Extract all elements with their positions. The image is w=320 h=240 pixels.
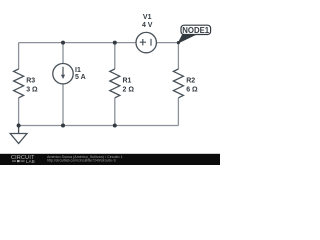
wire R1 bottom	[114, 98, 116, 126]
footer logo LAB	[12, 160, 25, 162]
svg-text:R1: R1	[123, 77, 132, 84]
ground	[18, 126, 20, 134]
svg-text:3 Ω: 3 Ω	[26, 86, 38, 93]
svg-text:R3: R3	[26, 77, 35, 84]
wire I1 top	[62, 43, 64, 64]
wire R2 top vertical	[177, 43, 179, 69]
voltage source V1	[136, 32, 156, 52]
wire left vertical lower	[18, 98, 20, 126]
resistor R1	[110, 69, 120, 98]
junction dot NODE1 corner	[177, 41, 180, 44]
footer bar	[0, 154, 220, 165]
wire V1 right to NODE1 corner	[157, 42, 179, 44]
svg-text:http://circuitlab.com/circuit/: http://circuitlab.com/circuit/8e7249/cir…	[47, 158, 116, 162]
svg-text:2 Ω: 2 Ω	[123, 86, 135, 93]
svg-text:V1: V1	[143, 14, 152, 21]
resistor R2	[173, 69, 183, 98]
wire top horizontal	[19, 42, 136, 44]
svg-text:5 A: 5 A	[75, 74, 86, 81]
svg-text:R2: R2	[186, 77, 195, 84]
svg-text:NODE1: NODE1	[182, 26, 210, 35]
svg-text:LAB: LAB	[26, 159, 35, 164]
wire I1 bottom	[62, 84, 64, 126]
node NODE1 flag	[178, 34, 195, 43]
junction dot I1 bottom	[61, 124, 65, 128]
svg-text:I1: I1	[75, 67, 81, 74]
junction dot I1 top	[61, 41, 65, 45]
junction dot R1 bottom	[113, 124, 117, 128]
junction dot ground	[17, 124, 21, 128]
svg-text:4 V: 4 V	[142, 22, 153, 29]
svg-text:6 Ω: 6 Ω	[186, 86, 198, 93]
wire R1 top	[114, 43, 116, 69]
resistor R3	[14, 69, 24, 98]
wire R2 bottom	[177, 98, 179, 126]
current source I1	[53, 63, 73, 83]
wire bottom horizontal	[19, 125, 179, 127]
wire left vertical	[18, 43, 20, 69]
junction dot R1 top	[113, 41, 117, 45]
